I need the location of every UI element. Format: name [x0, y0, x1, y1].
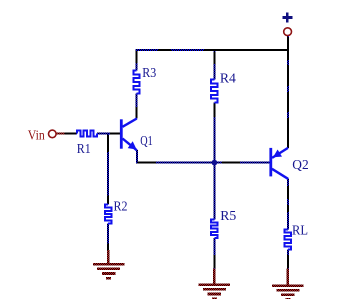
svg-text:R5: R5 [220, 209, 236, 224]
svg-text:Q1: Q1 [140, 134, 153, 149]
svg-text:RL: RL [292, 223, 308, 238]
svg-text:R2: R2 [114, 200, 128, 215]
svg-text:R3: R3 [142, 66, 156, 81]
svg-text:Vin: Vin [28, 128, 45, 143]
svg-text:R1: R1 [77, 142, 91, 157]
svg-text:Q2: Q2 [292, 158, 308, 173]
svg-text:R4: R4 [220, 71, 236, 86]
